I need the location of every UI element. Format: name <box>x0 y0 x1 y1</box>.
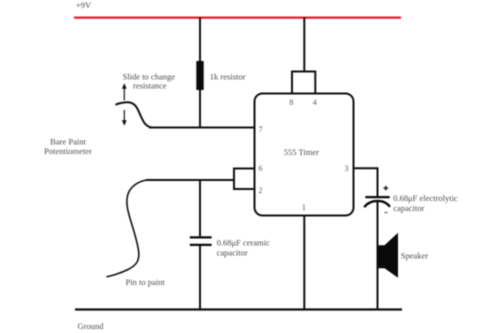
svg-text:+9V: +9V <box>76 0 92 10</box>
svg-text:3: 3 <box>345 164 349 173</box>
svg-text:Ground: Ground <box>78 321 105 331</box>
svg-text:capacitor: capacitor <box>393 203 424 213</box>
svg-text:1k resistor: 1k resistor <box>210 72 246 82</box>
svg-text:Pin to paint: Pin to paint <box>126 277 166 287</box>
svg-text:resistance: resistance <box>133 81 167 91</box>
svg-text:6: 6 <box>259 164 263 173</box>
svg-text:Speaker: Speaker <box>401 251 429 261</box>
svg-text:555 Timer: 555 Timer <box>284 147 319 157</box>
svg-text:7: 7 <box>259 125 263 134</box>
svg-text:0.68μF ceramic: 0.68μF ceramic <box>217 238 270 248</box>
svg-text:8: 8 <box>289 98 293 107</box>
svg-text:capacitor: capacitor <box>217 248 248 258</box>
svg-text:0.68μF electrolytic: 0.68μF electrolytic <box>393 193 458 203</box>
svg-text:Potentiometer: Potentiometer <box>44 146 92 156</box>
svg-text:4: 4 <box>313 98 317 107</box>
svg-text:2: 2 <box>259 186 263 195</box>
svg-text:1: 1 <box>302 203 306 212</box>
